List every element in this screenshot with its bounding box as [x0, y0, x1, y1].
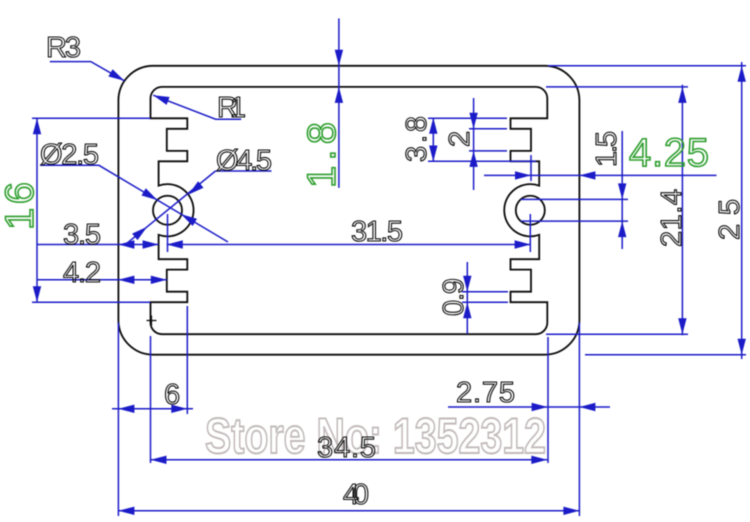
boss centerline left [167, 214, 169, 252]
dim 1.8 line [338, 18, 340, 188]
arrow dia4.5 lower [132, 227, 147, 240]
svg-text:4.25: 4.25 [629, 131, 709, 175]
svg-text:0.9: 0.9 [438, 278, 470, 316]
arrow dim 40 left [118, 507, 134, 515]
arrow dim 40 right [563, 507, 579, 515]
arrow dim 4.25 left [515, 171, 531, 179]
outer profile rounded rectangle 40x25 R3 [118, 66, 579, 355]
screw hole circle right (dia 2.5) [516, 196, 545, 225]
svg-text:1.8: 1.8 [300, 122, 344, 188]
arrow dim 0.9 bottom [463, 302, 471, 318]
svg-text:Ø2.5: Ø2.5 [40, 139, 99, 171]
arrow R3 leader [108, 69, 124, 81]
svg-text:31.5: 31.5 [351, 216, 403, 248]
arrow dim 21.4 top [678, 87, 686, 103]
arrow dia4.5 upper [188, 181, 203, 194]
arrow dim 16 top [33, 118, 41, 134]
arrow dim 6 right [171, 405, 187, 413]
svg-text:1.5: 1.5 [591, 131, 623, 167]
R3 leader [50, 62, 125, 81]
dia4.5 leader [126, 171, 271, 244]
arrow dim 21.4 bottom [678, 318, 686, 334]
arrow dim 2.75 left [532, 403, 548, 411]
arrow dim 4.2 left [118, 276, 134, 284]
inner cavity profile with wall ribs and screw bosses [151, 87, 548, 334]
svg-text:Ø4.5: Ø4.5 [216, 145, 272, 177]
arrow R1 leader [153, 95, 169, 105]
screw hole circle left (dia 2.5) [153, 196, 182, 225]
arrow dim 34.5 right [531, 456, 547, 464]
arrow dim 4.2 right [151, 276, 167, 284]
dim 4.25 line [484, 174, 717, 176]
arrow dim 34.5 left [151, 456, 167, 464]
dim 34.5 line [151, 459, 548, 461]
arrow dim 25 top [738, 66, 746, 82]
arrow dim 2.75 right [579, 403, 595, 411]
arrow dim 25 bottom [738, 339, 746, 355]
dim 40 line [118, 510, 579, 512]
dim 3.8 line [432, 118, 434, 162]
dim 1.5 line [621, 131, 623, 249]
cross mark near bottom-left inner corner [147, 316, 157, 326]
svg-text:34.5: 34.5 [317, 432, 376, 464]
dim 25 ext lines [548, 66, 746, 355]
dim 2 line [473, 98, 475, 190]
dim 4.2 line [37, 279, 167, 281]
dim 1.5 ext lines [521, 199, 628, 221]
dim 16: vertical line [36, 118, 38, 302]
svg-text:3.5: 3.5 [63, 219, 101, 251]
svg-text:4.2: 4.2 [63, 257, 101, 289]
arrow dim 2 top [469, 113, 477, 129]
dim 40 ext line left [117, 323, 119, 517]
svg-text:21.4: 21.4 [656, 189, 688, 247]
svg-text:R1: R1 [217, 92, 246, 124]
svg-text:2.75: 2.75 [456, 377, 515, 409]
arrow dim 1.8 top [335, 50, 343, 66]
dia2.5 leader [40, 165, 228, 242]
dim 6 line [112, 408, 193, 410]
boss centerline right [529, 214, 531, 252]
dim 21.4 line [681, 85, 683, 335]
svg-text:2: 2 [444, 131, 476, 147]
dim 4.25 ext line [530, 155, 532, 181]
arrow dim 1.5 top [618, 183, 626, 199]
arrow dim 2 bottom [469, 151, 477, 167]
dim 34.5 ext line left [150, 336, 152, 463]
dim 2.75 ext lines [548, 323, 579, 517]
arrow dim 31.5 right [515, 240, 531, 248]
svg-text:R3: R3 [46, 32, 81, 64]
arrow dim 1.5 bottom [618, 221, 626, 237]
R1 leader [153, 95, 241, 119]
arrow dia2.5 lower [181, 214, 197, 226]
arrow dim 1.8 bottom [335, 87, 343, 103]
arrow dim 3.5 right [143, 240, 159, 248]
svg-text:40: 40 [343, 479, 369, 511]
dim 31.5 line [167, 244, 531, 246]
dim 21.4 ext lines [546, 87, 688, 334]
arrow dia2.5 upper [142, 188, 158, 200]
dim 0.9 line [466, 262, 468, 334]
arrow dim 3.8 bottom [429, 146, 437, 162]
dim 2 ext lines [469, 129, 507, 151]
arrow dim 0.9 top [463, 276, 471, 292]
dim 3.5 line [37, 244, 159, 246]
dim 3.8 ext lines [428, 118, 536, 161]
arrow dim 3.8 top [429, 118, 437, 134]
svg-text:6: 6 [164, 379, 180, 411]
arrow dim 16 bottom [33, 286, 41, 302]
arrow dim 4.25 right [579, 171, 595, 179]
dim 2.75 line [448, 406, 610, 408]
arrow dim 3.5 left [118, 240, 134, 248]
dim 16 ext lines [32, 118, 151, 302]
dim 25 line [741, 62, 743, 359]
dim 6 ext line right [186, 306, 188, 414]
arrow dim 6 left [118, 405, 134, 413]
svg-text:3.8: 3.8 [401, 116, 433, 162]
dim 0.9 ext lines [462, 292, 508, 303]
arrow dim 31.5 left [167, 240, 183, 248]
